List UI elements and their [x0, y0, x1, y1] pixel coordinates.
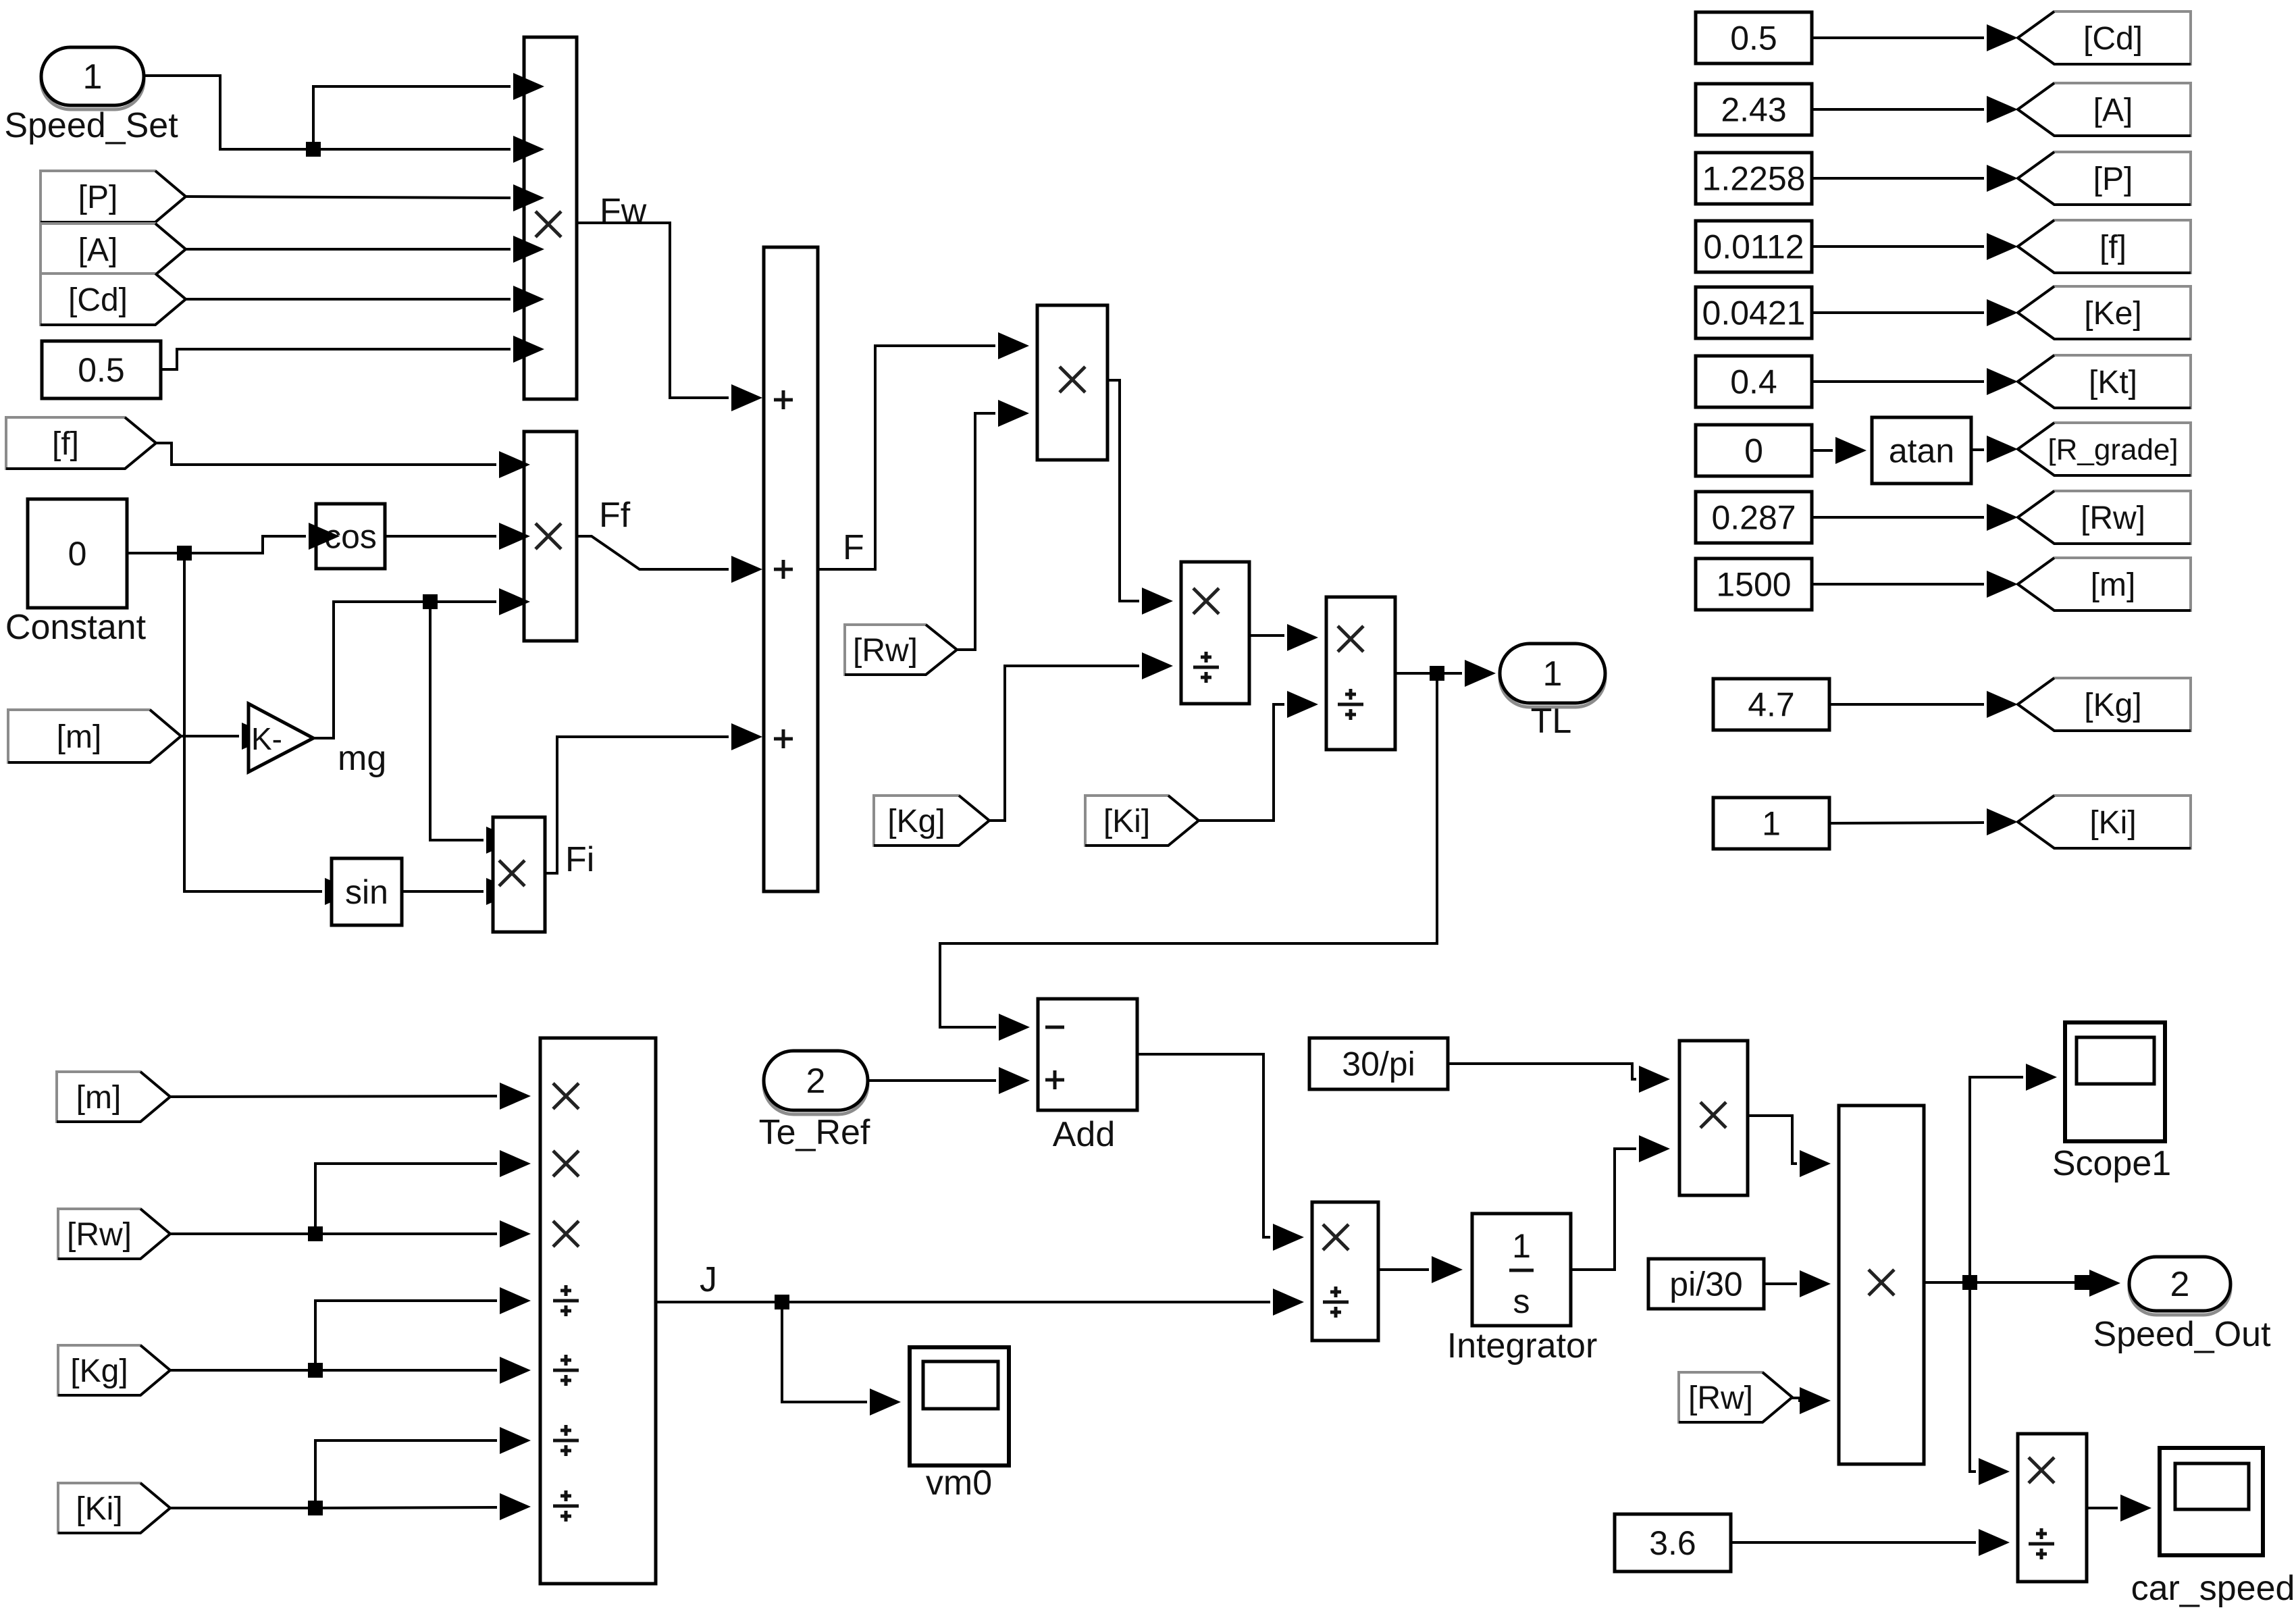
wire 0.0112 to goto [f] — [1812, 245, 1984, 248]
goto tag [f] — [2018, 220, 2191, 273]
from tag [f] — [6, 417, 156, 469]
constant 0 (grade) — [1696, 425, 1812, 476]
junction Constant branch — [177, 546, 192, 561]
svg-text:1500: 1500 — [1716, 566, 1791, 604]
svg-text:K-: K- — [251, 721, 282, 756]
wire J branch to vm0 scope — [782, 1302, 867, 1402]
wire [Ki] branch to J input 6 — [315, 1440, 497, 1508]
wire 0.4 to goto [Kt] — [1812, 380, 1984, 383]
svg-text:30/pi: 30/pi — [1342, 1045, 1415, 1083]
wire Add out to torque divide input 1 — [1137, 1054, 1270, 1237]
wire [Kg] branch to J input 4 — [315, 1301, 497, 1370]
svg-text:[Ki]: [Ki] — [76, 1491, 122, 1527]
from tag [Rw] mid — [845, 625, 957, 675]
svg-text:[m]: [m] — [57, 719, 102, 755]
svg-text:1: 1 — [1543, 654, 1563, 694]
big product block (speed) — [1839, 1106, 1924, 1464]
product block Fi (2 inputs) — [493, 817, 545, 932]
svg-text:Add: Add — [1053, 1115, 1116, 1154]
svg-text:[Ke]: [Ke] — [2084, 296, 2141, 332]
svg-text:[Rw]: [Rw] — [853, 633, 918, 669]
wire rpm product out to big product input 1 — [1748, 1116, 1797, 1164]
svg-text:1.2258: 1.2258 — [1702, 160, 1806, 198]
from tag [m] (gain row) — [8, 710, 181, 762]
sum block (3 plus inputs) — [764, 247, 818, 891]
inport 2 Te_Ref oval — [759, 1051, 870, 1152]
wire pi/30 to big product input 2 — [1764, 1282, 1797, 1285]
svg-text:0.4: 0.4 — [1730, 363, 1777, 401]
junction [Rw] branch — [308, 1226, 323, 1241]
constant 1500 — [1696, 559, 1812, 610]
outport 1 TL oval — [1500, 644, 1605, 741]
from tag [P] — [41, 171, 186, 222]
from tag [m] bottom — [57, 1072, 170, 1122]
from tag [Ki] bottom — [58, 1483, 170, 1533]
wire Ff out diagonal to sum input 2 — [577, 536, 729, 569]
product block F x Rw — [1037, 305, 1107, 460]
torque divide block (x over div) — [1312, 1202, 1378, 1341]
svg-text:[Kg]: [Kg] — [2084, 687, 2141, 723]
svg-text:[Cd]: [Cd] — [68, 282, 128, 318]
svg-text:0: 0 — [68, 535, 87, 573]
constant 0.287 — [1696, 492, 1812, 543]
minus sign in Add — [1045, 1026, 1064, 1029]
wire [m] to J input 1 — [170, 1096, 497, 1097]
wire J out to torque divide input 2 — [656, 1301, 1270, 1303]
constant 2.43 — [1696, 84, 1812, 135]
kmh divide block (x over div) — [2018, 1434, 2087, 1582]
junction [Ki] branch — [308, 1501, 323, 1515]
wire 30/pi to rpm product input 1 — [1448, 1064, 1636, 1079]
constant block 0 — [28, 499, 127, 608]
svg-text:[P]: [P] — [2093, 161, 2133, 197]
goto tag [Ki] — [2018, 796, 2191, 848]
svg-text:0.287: 0.287 — [1711, 499, 1796, 537]
wire [Rw] to J input 3 — [170, 1232, 497, 1235]
svg-text:2.43: 2.43 — [1721, 91, 1786, 129]
svg-text:pi/30: pi/30 — [1669, 1266, 1742, 1303]
wire 0.5 to goto [Cd] — [1812, 36, 1984, 39]
from tag [Ki] mid — [1085, 796, 1199, 846]
svg-text:0.0112: 0.0112 — [1703, 228, 1804, 266]
wire divide2 out to TL — [1395, 672, 1462, 675]
trig block cos — [316, 504, 385, 569]
svg-text:[P]: [P] — [78, 180, 118, 215]
goto tag [R_grade] — [2018, 423, 2191, 475]
wire [Rw] branch to J input 2 — [315, 1164, 497, 1234]
svg-text:[Ki]: [Ki] — [1103, 804, 1150, 839]
svg-text:0.5: 0.5 — [78, 351, 125, 389]
wire sum F out to FxRw input 1 — [818, 346, 995, 569]
wire [m] to gain — [181, 735, 239, 737]
svg-text:[Kg]: [Kg] — [887, 804, 945, 839]
svg-text:[m]: [m] — [76, 1080, 122, 1116]
scope vm0 — [910, 1347, 1009, 1503]
wire 3.6 to kmh divide input 2 — [1731, 1541, 1976, 1544]
svg-text:TL: TL — [1531, 702, 1572, 741]
junction mg branch — [423, 594, 438, 609]
wire [Kg] to divide1 input 2 — [989, 666, 1139, 821]
svg-text:[f]: [f] — [52, 426, 79, 462]
wire 1.2258 to goto [P] — [1812, 177, 1984, 180]
svg-text:Integrator: Integrator — [1447, 1326, 1598, 1366]
svg-text:0.5: 0.5 — [1730, 20, 1777, 57]
svg-text:car_speed: car_speed — [2131, 1569, 2295, 1608]
integrator block 1/s — [1472, 1214, 1571, 1326]
svg-text:Constant: Constant — [5, 608, 147, 647]
constant 30/pi — [1309, 1038, 1448, 1089]
wire gain mg to Ff input 3 — [313, 602, 496, 738]
constant 4.7 — [1713, 679, 1829, 730]
wire big product out to Speed_Out — [1924, 1281, 2087, 1284]
svg-text:[f]: [f] — [2099, 230, 2127, 265]
wire 0.5 to Fw input 6 — [161, 349, 511, 369]
from tag [Rw] bottom right — [1679, 1372, 1792, 1422]
wire [Rw] to FxRw input 2 — [957, 413, 995, 650]
wire speed branch up to Scope1 — [1970, 1077, 2023, 1282]
from tag [A] — [41, 224, 186, 275]
junction Speed_Set branch — [306, 142, 321, 157]
inport 1 Speed_Set oval — [4, 47, 178, 145]
svg-text:[Rw]: [Rw] — [67, 1217, 132, 1253]
constant 0.5 — [42, 341, 161, 398]
svg-text:2: 2 — [806, 1062, 826, 1101]
constant 0.5 — [1696, 12, 1812, 63]
wire [Cd] to Fw input 5 — [186, 298, 511, 301]
svg-text:0: 0 — [1744, 432, 1763, 470]
wire 1500 to goto [m] — [1812, 583, 1984, 586]
svg-text:sin: sin — [345, 873, 388, 911]
wire Constant to cos — [127, 536, 306, 553]
svg-text:J: J — [700, 1260, 717, 1299]
svg-text:[A]: [A] — [2093, 93, 2133, 128]
wire kmh divide out to car_speed scope — [2087, 1507, 2118, 1509]
wire speed branch down to kmh divide input 1 — [1970, 1282, 1976, 1472]
product block Ff (3 inputs) — [524, 432, 577, 641]
goto tag [Ke] — [2018, 286, 2191, 339]
wire sin to Fi input 2 — [402, 890, 484, 893]
svg-text:Ff: Ff — [599, 496, 631, 535]
svg-text:mg: mg — [338, 739, 386, 778]
wire Speed_Set to Fw input 2 — [144, 76, 511, 149]
wire [Ki] to divide2 input 2 — [1197, 704, 1284, 821]
wire 2.43 to goto [A] — [1812, 108, 1984, 111]
constant 1 — [1713, 798, 1829, 849]
constant 0.0421 — [1696, 287, 1812, 338]
svg-text:1: 1 — [1762, 805, 1781, 843]
constant 0.0112 — [1696, 221, 1812, 272]
scope Scope1 — [2052, 1022, 2171, 1183]
rpm product block — [1679, 1041, 1748, 1195]
svg-text:[Rw]: [Rw] — [1688, 1380, 1753, 1416]
constant 1.2258 — [1696, 153, 1812, 204]
outport 2 Speed_Out oval — [2093, 1257, 2271, 1354]
svg-text:1: 1 — [83, 57, 103, 97]
svg-text:2: 2 — [2170, 1265, 2190, 1304]
from tag [Rw] bottom — [58, 1209, 170, 1259]
junction [Kg] branch — [308, 1363, 323, 1378]
svg-text:Te_Ref: Te_Ref — [759, 1113, 870, 1152]
wire 0 to atan — [1812, 449, 1833, 452]
wire torque divide out to Integrator — [1378, 1268, 1429, 1271]
constant pi/30 — [1648, 1259, 1764, 1309]
wire [Kg] to J input 5 — [170, 1369, 497, 1372]
wire Constant branch to sin — [184, 553, 322, 891]
scope car_speed — [2131, 1448, 2295, 1608]
svg-text:Speed_Out: Speed_Out — [2093, 1315, 2271, 1354]
add block — [1038, 999, 1137, 1110]
goto tag [Kt] — [2018, 355, 2191, 408]
svg-text:[Ki]: [Ki] — [2089, 805, 2136, 841]
svg-text:[Kt]: [Kt] — [2089, 365, 2137, 400]
svg-text:vm0: vm0 — [926, 1463, 992, 1503]
wire [f] to Ff input 1 — [156, 443, 496, 465]
constant 3.6 — [1615, 1514, 1731, 1572]
svg-text:[R_grade]: [R_grade] — [2047, 433, 2178, 466]
wire 4.7 to goto [Kg] — [1829, 703, 1984, 706]
goto tag [Rw] — [2018, 491, 2191, 544]
svg-text:F: F — [843, 528, 864, 567]
junction J branch to vm0 — [775, 1295, 789, 1309]
from tag [Cd] — [41, 274, 186, 325]
svg-text:Scope1: Scope1 — [2052, 1144, 2171, 1183]
svg-text:1: 1 — [1512, 1227, 1531, 1265]
goto tag [Cd] — [2018, 11, 2191, 64]
wire TL feedback to Add minus input — [940, 673, 1437, 1027]
atan block — [1872, 417, 1971, 484]
svg-text:[Kg]: [Kg] — [70, 1353, 128, 1389]
divide block 1 (x over div) — [1181, 562, 1249, 704]
wire 0.0421 to goto [Ke] — [1812, 311, 1984, 314]
from tag [Kg] mid — [874, 796, 989, 846]
goto tag [m] — [2018, 558, 2191, 611]
wire Te_Ref to Add plus input — [868, 1079, 996, 1082]
goto tag [P] — [2018, 152, 2191, 205]
from tag [Kg] bottom — [58, 1345, 170, 1395]
junction speed branch 1 — [1962, 1275, 1977, 1290]
wire 0.287 to goto [Rw] — [1812, 516, 1984, 519]
wire divide1 out to divide2 input 1 — [1249, 634, 1284, 637]
wire [A] to Fw input 4 — [186, 248, 511, 251]
svg-text:[Cd]: [Cd] — [2083, 21, 2143, 57]
svg-text:atan: atan — [1889, 432, 1954, 470]
wire 1 to goto [Ki] — [1829, 823, 1984, 823]
wire FxRw out to divide1 input 1 — [1107, 380, 1139, 601]
svg-text:Speed_Set: Speed_Set — [4, 106, 178, 145]
junction TL feedback branch — [1430, 666, 1444, 681]
svg-text:[m]: [m] — [2091, 567, 2136, 603]
wire Fi out to sum input 3 — [545, 737, 729, 873]
divide block 2 (x over div) — [1326, 597, 1395, 750]
wire [Rw] to big product input 3 — [1792, 1398, 1811, 1401]
product block J (7 inputs) — [540, 1038, 656, 1584]
svg-text:[A]: [A] — [78, 232, 118, 268]
svg-text:4.7: 4.7 — [1748, 686, 1795, 724]
wire Speed_Set branch to Fw input 1 — [313, 86, 511, 149]
goto tag [Kg] — [2018, 678, 2191, 731]
svg-text:[Rw]: [Rw] — [2081, 500, 2145, 536]
wire mg branch to Fi input 1 — [430, 602, 484, 840]
trig block sin — [332, 858, 402, 925]
gain block K- (mg) — [249, 704, 313, 772]
wire [Ki] to J input 7 — [170, 1507, 497, 1508]
wire Integrator out to rpm product input 2 — [1571, 1149, 1636, 1270]
svg-text:Fi: Fi — [565, 840, 594, 879]
junction speed branch 2 — [2075, 1275, 2089, 1290]
goto tag [A] — [2018, 83, 2191, 136]
wire atan to goto R_grade — [1971, 448, 1984, 451]
svg-text:3.6: 3.6 — [1649, 1524, 1696, 1562]
wire Fw out to sum input 1 — [577, 223, 729, 398]
wire cos to Ff input 2 — [385, 535, 496, 538]
constant 0.4 — [1696, 356, 1812, 407]
product block Fw (6 inputs) — [524, 37, 577, 399]
svg-text:Fw: Fw — [600, 192, 647, 231]
svg-text:s: s — [1513, 1282, 1530, 1320]
wire [P] to Fw input 3 — [186, 197, 511, 198]
svg-text:0.0421: 0.0421 — [1702, 294, 1806, 332]
